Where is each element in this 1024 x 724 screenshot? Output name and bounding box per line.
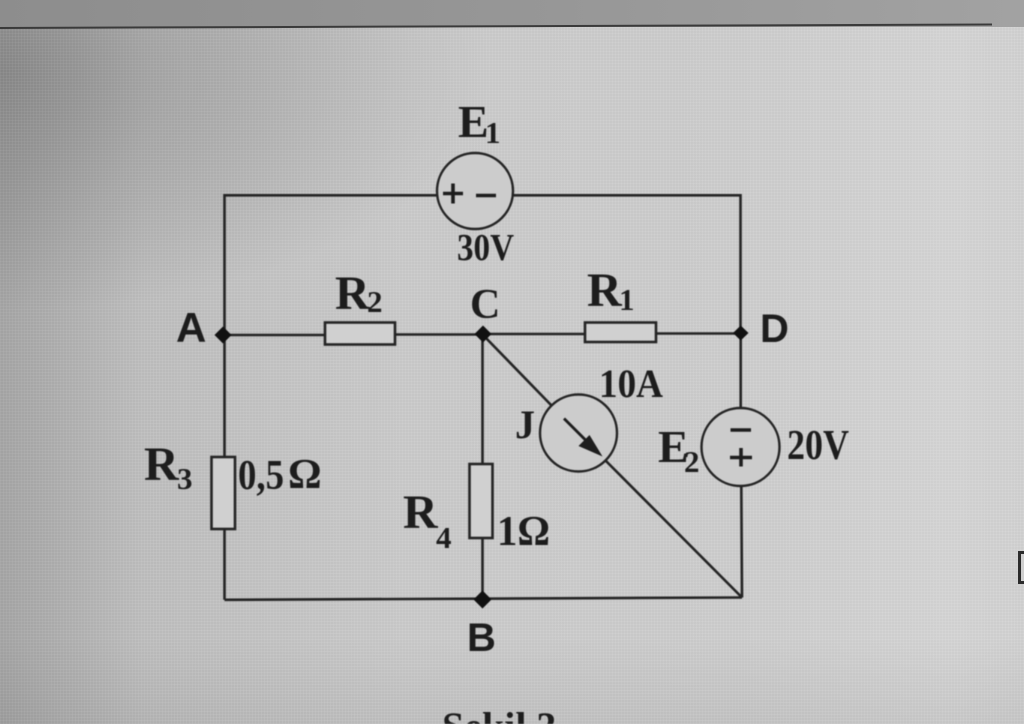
wire right vertical: D to E2: [739, 333, 742, 408]
current source J circle: [540, 395, 617, 472]
wire middle vertical: C down to R4: [481, 334, 484, 464]
E1 minus sign: [476, 194, 496, 198]
wire middle horizontal: A to R2: [225, 334, 326, 337]
svg-text:B: B: [467, 616, 496, 660]
wire top-left: A up to top-left corner and across to E1: [225, 195, 438, 336]
svg-text:D: D: [760, 307, 789, 351]
node A dot: [215, 327, 232, 344]
svg-text:3: 3: [177, 461, 193, 496]
E2 plus sign: [730, 448, 752, 467]
wire middle horizontal: R1 to D: [656, 332, 741, 335]
node D dot: [733, 326, 749, 341]
wire diagonal lower: J to bottom-right corner: [606, 461, 743, 598]
svg-text:Şekil 3: Şekil 3: [442, 704, 556, 724]
svg-text:2: 2: [684, 444, 700, 479]
svg-text:R: R: [335, 267, 371, 320]
wire right vertical lower: E2 to bottom-right corner: [740, 486, 743, 598]
resistor R2 body: [325, 323, 395, 345]
wire top-right: E1 to top-right corner down to D: [513, 195, 741, 333]
svg-text:A: A: [176, 304, 206, 351]
wire middle horizontal: C to R1: [483, 333, 585, 336]
svg-text:C: C: [470, 282, 500, 328]
node B dot: [474, 591, 492, 609]
wire middle vertical lower: R4 to B: [481, 538, 484, 600]
svg-text:J: J: [515, 402, 535, 447]
svg-text:2: 2: [367, 284, 383, 319]
svg-text:4: 4: [436, 520, 452, 555]
wire middle horizontal: R2 to C: [395, 333, 483, 336]
resistor R4 body: [470, 464, 493, 538]
svg-text:Ω: Ω: [288, 452, 322, 498]
wire left vertical lower: R3 to bottom-left corner: [223, 529, 226, 600]
svg-text:1: 1: [485, 115, 501, 150]
wire diagonal upper: C to current source J: [484, 336, 552, 406]
svg-text:R: R: [587, 264, 623, 317]
node C dot: [475, 326, 492, 343]
thin horizontal rule at top: [0, 24, 992, 29]
voltage source E1 circle: [437, 153, 513, 229]
resistor R1 body: [585, 323, 656, 343]
J arrow shaft: [564, 419, 593, 448]
wire left vertical: A down to R3: [223, 336, 226, 457]
E2 minus sign: [731, 428, 752, 432]
darker top band of photo: [0, 0, 1024, 27]
white bracket artifact at right edge: [1018, 551, 1024, 584]
svg-text:30V: 30V: [457, 227, 514, 269]
svg-text:20V: 20V: [787, 423, 849, 469]
svg-text:1Ω: 1Ω: [497, 509, 550, 555]
voltage source E2 circle: [702, 408, 780, 486]
resistor R3 body: [212, 457, 236, 529]
E1 plus sign: [443, 184, 463, 204]
J arrowhead: [579, 435, 603, 457]
svg-text:10A: 10A: [599, 361, 663, 406]
wire bottom: bottom-left corner to bottom-right corner: [225, 598, 743, 600]
svg-text:R: R: [144, 438, 180, 491]
svg-text:1: 1: [619, 282, 635, 317]
svg-text:R: R: [403, 486, 439, 539]
svg-text:0,5: 0,5: [238, 453, 284, 499]
